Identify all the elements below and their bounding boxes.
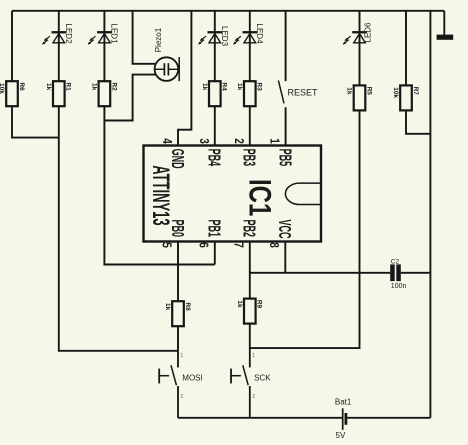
svg-text:R2: R2 (110, 82, 117, 91)
resistor R7 (392, 85, 419, 110)
svg-text:ATTINY13: ATTINY13 (147, 165, 173, 226)
IC IC1 ATTINY13 body (144, 146, 322, 242)
svg-text:LED2: LED2 (64, 24, 73, 45)
svg-text:R1: R1 (65, 82, 72, 91)
resistor R2 (90, 81, 117, 106)
svg-text:5V: 5V (336, 431, 346, 440)
wire bottom supply rail left (178, 417, 343, 419)
svg-text:1k: 1k (90, 83, 97, 91)
resistor R1 (45, 81, 72, 106)
wire R6 bottom to R1 column (12, 106, 59, 137)
wire R7 column top (405, 11, 407, 86)
wire R7 bottom to right rail (406, 110, 430, 133)
resistor R9 (236, 299, 263, 324)
svg-text:LED4: LED4 (255, 24, 264, 45)
svg-text:PB2: PB2 (240, 220, 259, 238)
wire R5 bottom down to SCK feed (250, 110, 360, 348)
wire piezo bottom terminal to LED1 column (104, 75, 155, 121)
wire PB2 pin down to R9 (249, 242, 251, 299)
wire PB3 pin to R3 (249, 11, 251, 146)
wire LED6 column (359, 11, 361, 86)
svg-text:LED6: LED6 (364, 22, 373, 43)
svg-text:3: 3 (196, 138, 209, 144)
wire R8 to MOSI (177, 326, 179, 351)
LED LED1 (88, 24, 118, 45)
svg-text:RESET: RESET (288, 87, 319, 97)
svg-text:R6: R6 (18, 82, 25, 91)
switch RESET (278, 81, 318, 104)
wire GND pin riser (178, 11, 191, 146)
svg-text:R9: R9 (256, 300, 263, 309)
wire PB4 pin to R4 (214, 11, 216, 146)
svg-text:LED3: LED3 (220, 26, 229, 47)
wire VCC line to C2 (250, 272, 390, 274)
wire piezo top terminal to rail (133, 11, 156, 64)
svg-text:1k: 1k (164, 303, 171, 311)
svg-text:IC1: IC1 (243, 179, 278, 216)
svg-text:Bat1: Bat1 (335, 398, 352, 407)
wire top GND rail (12, 10, 444, 12)
svg-text:1k: 1k (236, 300, 243, 308)
svg-text:R8: R8 (184, 302, 191, 311)
svg-text:1k: 1k (201, 83, 208, 91)
wire PB1 pin stub (214, 242, 216, 265)
svg-text:6: 6 (196, 242, 209, 248)
LED LED4 (234, 24, 264, 45)
wire right GND vertical (429, 11, 431, 418)
svg-text:MOSI: MOSI (182, 373, 202, 382)
svg-text:LED1: LED1 (109, 24, 118, 45)
LED LED2 (43, 24, 73, 45)
ground symbol (top right) (437, 35, 454, 40)
svg-text:R3: R3 (256, 82, 263, 91)
resistor R3 (236, 81, 263, 106)
resistor R4 (201, 81, 228, 106)
svg-text:C2: C2 (391, 258, 400, 265)
svg-text:PB5: PB5 (276, 149, 295, 167)
svg-text:VCC: VCC (275, 220, 294, 239)
wire C2 to right rail (401, 272, 431, 274)
svg-text:PB4: PB4 (205, 149, 224, 167)
svg-text:10k: 10k (392, 87, 399, 98)
capacitor C2 100n (390, 258, 406, 290)
LED LED6 (343, 22, 372, 44)
wire R9 to SCK (249, 324, 251, 351)
svg-text:5: 5 (159, 242, 172, 248)
IC notch (285, 183, 321, 204)
svg-text:2: 2 (252, 394, 255, 400)
wire R2 bottom down to PB1 link (104, 106, 214, 264)
wire LED2 column (58, 11, 60, 81)
piezo Piezo1 (154, 27, 179, 81)
svg-text:1: 1 (267, 138, 280, 144)
svg-text:R5: R5 (365, 87, 372, 96)
svg-text:PB1: PB1 (205, 220, 224, 238)
wire left branch to R6 (11, 11, 13, 81)
switch MOSI (pushbutton) (159, 351, 203, 418)
wire bottom supply rail right (346, 417, 431, 419)
svg-text:1k: 1k (346, 87, 353, 95)
svg-text:4: 4 (160, 138, 173, 144)
switch SCK (pushbutton) (231, 351, 271, 418)
svg-text:2: 2 (180, 394, 183, 400)
resistor R5 (346, 85, 373, 110)
battery Bat1 5V (335, 398, 352, 440)
svg-text:1: 1 (180, 353, 183, 359)
svg-text:GND: GND (168, 149, 187, 169)
svg-text:7: 7 (231, 242, 244, 248)
svg-text:PB0: PB0 (168, 220, 187, 238)
svg-text:R7: R7 (412, 87, 419, 96)
LED LED3 (199, 26, 229, 47)
svg-text:SCK: SCK (254, 373, 271, 382)
wire PB0 pin down to R8 (177, 242, 179, 302)
svg-text:PB3: PB3 (240, 149, 259, 167)
wire R1 bottom down to MOSI feed (59, 106, 178, 351)
wire VCC pin stub (284, 242, 286, 273)
svg-text:100n: 100n (391, 283, 407, 290)
svg-text:1k: 1k (45, 83, 52, 91)
svg-text:1: 1 (252, 353, 255, 359)
svg-text:8: 8 (266, 242, 279, 248)
svg-text:2: 2 (231, 138, 244, 144)
wire LED1 column (103, 11, 105, 81)
svg-text:10k: 10k (0, 83, 5, 94)
svg-text:R4: R4 (221, 82, 228, 91)
svg-text:Piezo1: Piezo1 (154, 27, 163, 52)
svg-text:1k: 1k (236, 83, 243, 91)
wire ground stub (443, 11, 445, 35)
resistor R6 (0, 81, 25, 106)
wire RESET column (285, 11, 287, 146)
resistor R8 (164, 301, 191, 326)
